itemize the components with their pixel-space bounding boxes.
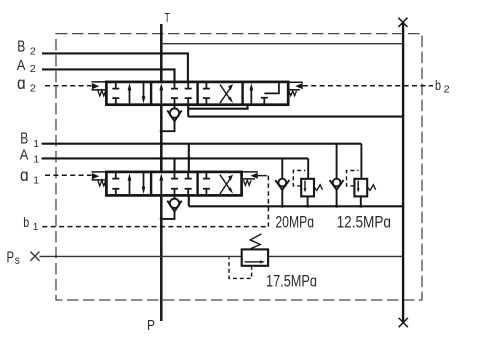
V2 position 3: blocked bypass	[203, 82, 210, 105]
pilot actuator left of V2	[92, 82, 107, 90]
pilot line b2 (dashed)	[303, 85, 433, 87]
directional valve V1 (lower section) body	[106, 172, 241, 196]
pilot line a2 (dashed)	[45, 85, 92, 87]
wire B2	[42, 53, 188, 82]
svg-text:2: 2	[30, 63, 36, 75]
wire A1	[42, 157, 309, 159]
port b1 label	[23, 215, 38, 233]
junction T/B2	[160, 52, 163, 55]
V1 neutral: open-center up arrow	[160, 178, 162, 195]
svg-text:ɑ: ɑ	[20, 165, 29, 185]
spring of right pilot V1	[244, 180, 252, 185]
V2 position 1: blocked port symbols	[112, 82, 119, 105]
plugged port X on Ps	[30, 252, 39, 261]
port A1 label	[20, 148, 39, 166]
V1 position 3: crossed arrows	[220, 175, 230, 194]
wire: B1 drop to valve	[188, 144, 190, 172]
RV1 pilot (dashed)	[293, 171, 305, 186]
svg-text:B: B	[20, 131, 28, 148]
svg-text:1: 1	[33, 221, 39, 233]
port Ps label	[7, 249, 21, 267]
svg-text:1: 1	[33, 154, 39, 166]
wire B1	[42, 143, 362, 145]
wire: pump bypass to P port	[160, 195, 163, 321]
svg-text:1: 1	[33, 175, 39, 187]
V1 position 1: blocked port symbols	[112, 172, 119, 195]
svg-text:2: 2	[30, 83, 36, 95]
port b2 label	[435, 78, 450, 96]
wire: B2 service loop below V2	[188, 105, 247, 117]
V2 position 4 (float): up arrow	[250, 88, 252, 105]
svg-text:1: 1	[33, 138, 39, 150]
V2 position 1: up arrow	[129, 88, 131, 105]
svg-text:20MPɑ: 20MPɑ	[275, 212, 314, 231]
junction CV1 to bypass	[160, 217, 163, 220]
valve block enclosure (dashed boundary)	[56, 34, 422, 300]
V1 neutral: blocked A1 port	[171, 172, 178, 195]
wire: T branch to tank manifold	[161, 43, 403, 45]
svg-text:b: b	[435, 78, 441, 93]
RV2 spring	[368, 185, 376, 191]
V2 position 3: crossed arrows	[220, 85, 230, 104]
wire Ps	[40, 255, 404, 257]
port a2 label	[17, 73, 36, 95]
port relief valve RV2 12.5MPa (B1)	[360, 144, 362, 179]
pilot link b1 (solid stub then dashed)	[258, 175, 262, 177]
V1 neutral: blocked B1 port	[185, 172, 192, 195]
svg-text:T: T	[165, 10, 170, 25]
spring of left pilot V1	[98, 180, 106, 186]
main relief valve RV3 17.5MPa	[242, 249, 268, 265]
svg-text:s: s	[15, 255, 20, 267]
wire: B1 drop to relief manifold	[188, 195, 190, 206]
port A2 label	[17, 58, 36, 75]
junction bypass/A1	[160, 157, 164, 161]
port relief valve RV1 20MPa (A1)	[307, 158, 309, 178]
port B1 label	[20, 131, 39, 150]
anticavitation check valve CV4 (A1)	[281, 158, 283, 178]
V2 neutral: blocked A2 port	[171, 82, 178, 105]
wire: upper section return to tank manifold	[188, 116, 403, 118]
junction dots on relief manifold	[281, 205, 363, 208]
spring of left pilot V2	[98, 90, 106, 96]
svg-text:17.5MPɑ: 17.5MPɑ	[266, 272, 317, 291]
svg-text:12.5MPɑ: 12.5MPɑ	[337, 212, 391, 231]
svg-text:b: b	[23, 215, 29, 230]
wire: T riser above upper valve	[160, 24, 163, 82]
port a1 label	[20, 165, 39, 187]
tank manifold line	[402, 22, 404, 322]
RV3 pilot (dashed)	[229, 257, 252, 278]
junction bypass/B1	[160, 142, 164, 146]
directional valve V2 (upper section) body	[106, 82, 288, 105]
svg-text:B: B	[17, 39, 25, 56]
plugged port X (top)	[398, 18, 407, 27]
svg-text:ɑ: ɑ	[17, 73, 26, 93]
V2 position 4: bent passage	[264, 82, 279, 93]
load check valve CV1 (below V1)	[174, 195, 176, 199]
spring of right pilot V2	[289, 91, 297, 96]
pilot line a1 (dashed)	[45, 174, 92, 176]
pilot line b1 (dashed)	[42, 226, 268, 228]
junction B1-drop/A1	[187, 157, 190, 160]
V1 position 1: up arrow	[129, 178, 131, 195]
wire: bypass between sections	[160, 105, 163, 172]
svg-text:A: A	[20, 148, 29, 164]
wire: relief manifold to tank	[189, 205, 403, 207]
V1 position 1: down arrow	[143, 172, 145, 189]
port B2 label	[17, 39, 36, 58]
svg-text:P: P	[147, 317, 155, 334]
V2 neutral position: open-center up arrow	[160, 88, 162, 105]
pilot actuator right of V1	[242, 172, 258, 179]
plugged port X (bottom)	[399, 318, 408, 327]
svg-text:P: P	[7, 249, 15, 266]
anticavitation check valve CV3 (B1)	[336, 144, 338, 179]
svg-text:A: A	[17, 58, 26, 74]
pilot actuator right of V2	[287, 82, 303, 89]
V2 position 1: down arrow	[143, 82, 145, 99]
junction CV2 to bypass	[160, 130, 163, 133]
svg-text:2: 2	[444, 84, 450, 96]
V1 position 3: blocked bypass	[203, 172, 210, 195]
V2 position 4: bottom stub with cap	[261, 98, 268, 105]
wire: A1 drop to valve	[173, 158, 175, 172]
load check valve CV2 (below V2)	[174, 105, 176, 109]
RV2 pilot (dashed)	[347, 171, 359, 186]
RV1 spring	[314, 185, 322, 191]
svg-text:2: 2	[30, 46, 36, 58]
V2 neutral: blocked B2 port	[185, 82, 192, 105]
junction T/A2	[160, 68, 163, 71]
wire A2	[42, 69, 175, 82]
pilot actuator left of V1	[92, 172, 107, 180]
RV3 spring	[250, 234, 261, 249]
